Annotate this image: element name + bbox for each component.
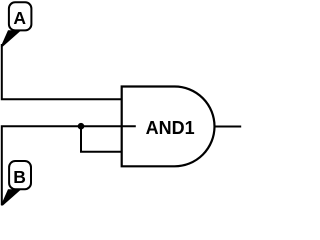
net label B tail — [1, 189, 22, 205]
svg-text:B: B — [13, 167, 26, 187]
wire net B: vertical from label tail up, then right to gate input 2 — [2, 126, 136, 205]
wire net B branch: from junction down, then right to gate input 3 — [81, 125, 122, 152]
svg-text:AND1: AND1 — [146, 118, 195, 138]
net label B bubble — [9, 161, 31, 189]
wire net A: vertical from label tail down, then right to gate input 1 — [2, 44, 122, 99]
svg-text:A: A — [13, 8, 26, 28]
net label A tail — [1, 30, 22, 46]
net label A bubble — [9, 2, 32, 30]
wire: gate output — [214, 126, 242, 128]
AND gate AND1 — [122, 87, 215, 167]
junction dot on net B — [78, 123, 85, 130]
